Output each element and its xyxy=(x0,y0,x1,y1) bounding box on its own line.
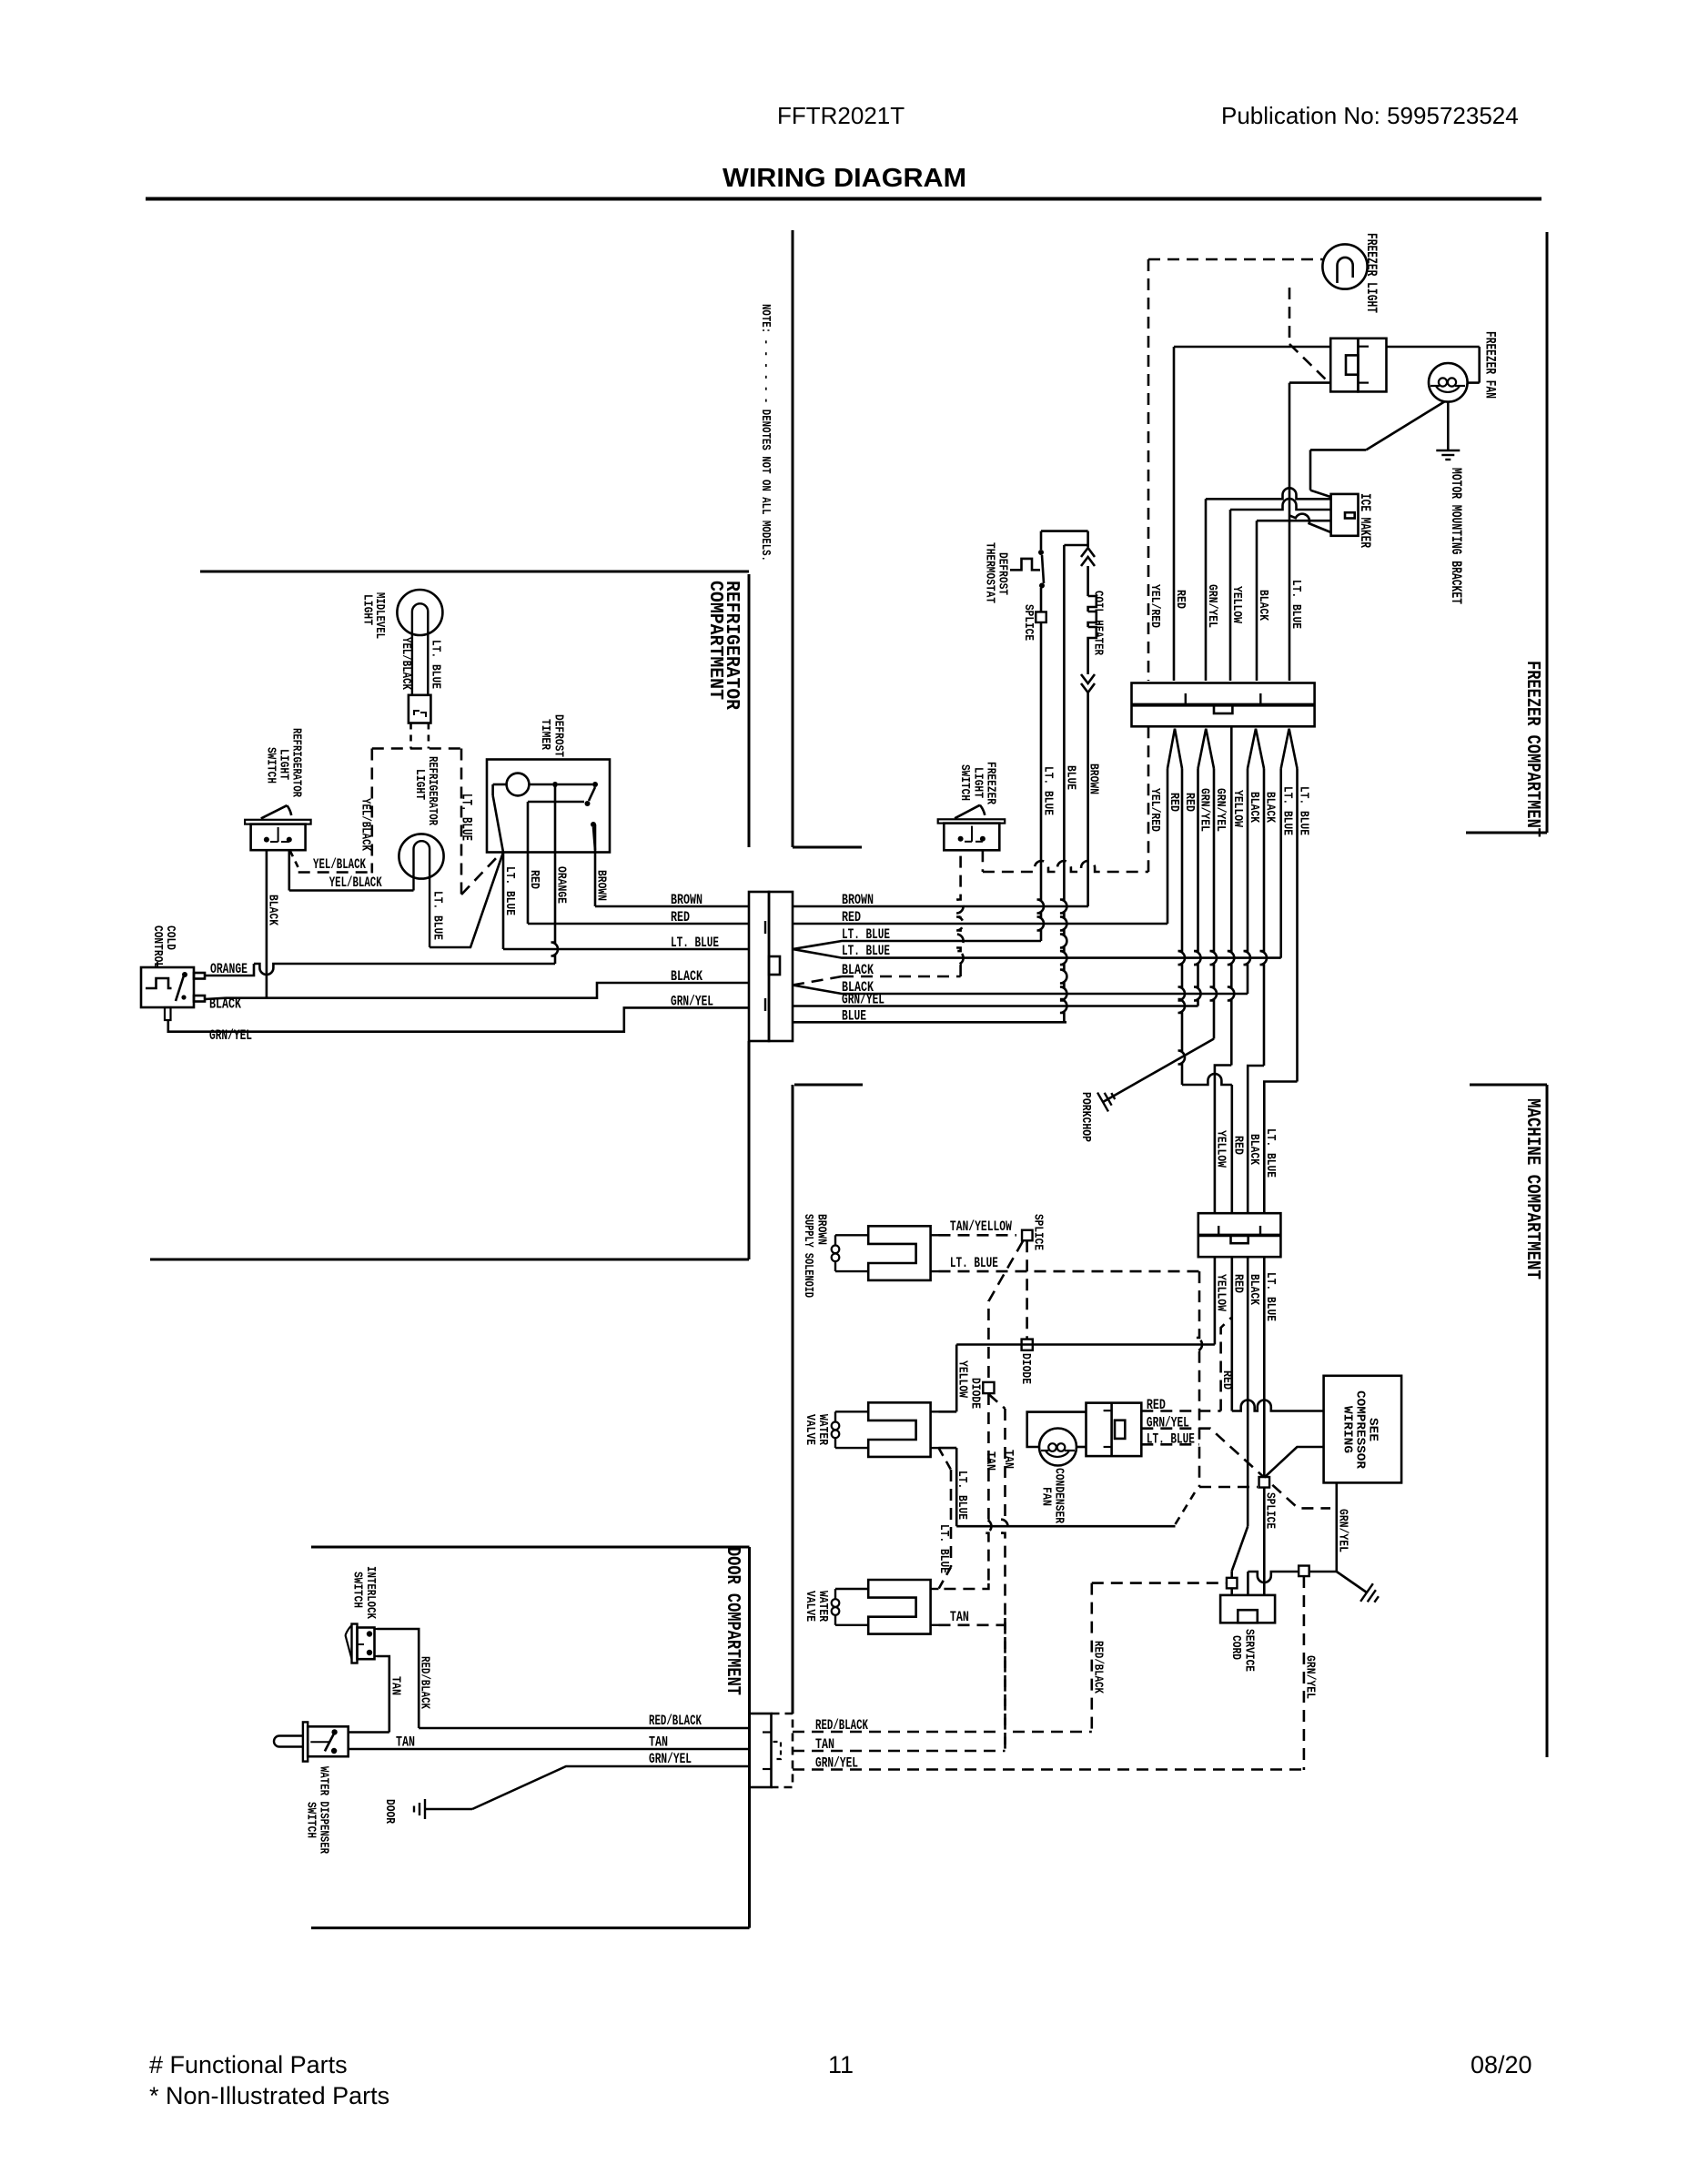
svg-text:BLUE: BLUE xyxy=(1064,765,1078,790)
svg-text:RED/BLACK: RED/BLACK xyxy=(649,1713,702,1729)
svg-text:TAN: TAN xyxy=(1001,1450,1016,1469)
svg-text:GRN/YEL: GRN/YEL xyxy=(209,1027,252,1044)
svg-text:TAN: TAN xyxy=(983,1451,997,1471)
svg-text:RED: RED xyxy=(1167,793,1181,812)
svg-text:GRN/YEL: GRN/YEL xyxy=(1205,584,1219,628)
svg-text:GRN/YEL: GRN/YEL xyxy=(1213,788,1228,832)
svg-text:COIL HEATER: COIL HEATER xyxy=(1091,591,1106,655)
svg-text:LIGHT: LIGHT xyxy=(360,594,375,625)
svg-text:BLACK: BLACK xyxy=(842,962,874,978)
svg-text:WIRING DIAGRAM: WIRING DIAGRAM xyxy=(723,164,966,193)
svg-text:FREEZER COMPARTMENT: FREEZER COMPARTMENT xyxy=(1521,661,1542,837)
svg-text:TAN: TAN xyxy=(950,1609,969,1625)
svg-text:LT. BLUE: LT. BLUE xyxy=(936,1524,951,1573)
svg-text:MACHINE COMPARTMENT: MACHINE COMPARTMENT xyxy=(1521,1098,1542,1279)
svg-text:YEL/RED: YEL/RED xyxy=(1147,584,1162,628)
svg-text:LT. BLUE: LT. BLUE xyxy=(429,640,443,689)
svg-text:YEL/BLACK: YEL/BLACK xyxy=(359,798,373,851)
svg-text:TAN/YELLOW: TAN/YELLOW xyxy=(950,1218,1013,1235)
svg-text:LT. BLUE: LT. BLUE xyxy=(1263,1272,1278,1321)
svg-text:WIRING: WIRING xyxy=(1340,1406,1354,1453)
svg-text:RED: RED xyxy=(1231,1274,1246,1293)
svg-text:# Functional Parts: # Functional Parts xyxy=(149,2051,348,2078)
svg-text:BLACK: BLACK xyxy=(1247,1274,1261,1305)
svg-text:YEL/BLACK: YEL/BLACK xyxy=(313,856,366,873)
svg-text:TIMER: TIMER xyxy=(538,719,552,750)
svg-text:TAN: TAN xyxy=(389,1676,403,1695)
svg-text:BLACK: BLACK xyxy=(266,895,280,925)
svg-text:BLACK: BLACK xyxy=(1247,1134,1261,1165)
svg-text:SPLICE: SPLICE xyxy=(1263,1492,1278,1529)
svg-text:GRN/YEL: GRN/YEL xyxy=(1198,788,1212,832)
svg-text:LT. BLUE: LT. BLUE xyxy=(459,794,475,841)
svg-text:LT. BLUE: LT. BLUE xyxy=(430,891,445,940)
svg-text:YELLOW: YELLOW xyxy=(1214,1130,1228,1168)
svg-text:YELLOW: YELLOW xyxy=(1214,1274,1228,1311)
svg-text:SPLICE: SPLICE xyxy=(1031,1214,1046,1250)
svg-text:YELLOW: YELLOW xyxy=(955,1360,970,1398)
svg-text:SPLICE: SPLICE xyxy=(1021,604,1036,641)
svg-text:PORKCHOP: PORKCHOP xyxy=(1078,1092,1093,1142)
svg-text:GRN/YEL: GRN/YEL xyxy=(1336,1509,1350,1552)
svg-text:BROWN: BROWN xyxy=(594,870,609,901)
svg-text:FFTR2021T: FFTR2021T xyxy=(777,102,905,129)
svg-text:CONTROL: CONTROL xyxy=(150,925,165,968)
svg-text:FREEZER FAN: FREEZER FAN xyxy=(1482,331,1499,399)
svg-text:LT. BLUE: LT. BLUE xyxy=(955,1471,969,1520)
svg-text:DOOR COMPARTMENT: DOOR COMPARTMENT xyxy=(722,1547,743,1695)
svg-text:RED: RED xyxy=(1173,590,1188,609)
svg-text:* Non-Illustrated Parts: * Non-Illustrated Parts xyxy=(149,2082,389,2109)
svg-text:CORD: CORD xyxy=(1228,1635,1243,1660)
svg-text:FAN: FAN xyxy=(1039,1487,1054,1506)
svg-text:GRN/YEL: GRN/YEL xyxy=(649,1751,692,1767)
svg-text:GRN/YEL: GRN/YEL xyxy=(842,992,884,1008)
svg-text:TAN: TAN xyxy=(649,1734,668,1751)
svg-text:RED: RED xyxy=(671,909,690,925)
svg-text:THERMOSTAT: THERMOSTAT xyxy=(983,542,997,603)
svg-text:YELLOW: YELLOW xyxy=(1229,586,1244,623)
svg-text:RED/BLACK: RED/BLACK xyxy=(418,1656,432,1709)
svg-text:NOTE: - - - - - - DENOTES NOT: NOTE: - - - - - - DENOTES NOT ON ALL MOD… xyxy=(758,304,773,561)
svg-text:Publication No: 5995723524: Publication No: 5995723524 xyxy=(1221,102,1519,129)
svg-text:YEL/RED: YEL/RED xyxy=(1147,788,1162,832)
svg-text:GRN/YEL: GRN/YEL xyxy=(671,994,713,1010)
svg-text:DOOR: DOOR xyxy=(382,1799,397,1824)
svg-text:TAN: TAN xyxy=(396,1734,415,1751)
svg-text:LT. BLUE: LT. BLUE xyxy=(1263,1128,1278,1178)
svg-text:ORANGE: ORANGE xyxy=(210,961,248,977)
svg-text:LT. BLUE: LT. BLUE xyxy=(1147,1431,1195,1448)
svg-text:SWITCH: SWITCH xyxy=(304,1802,318,1838)
svg-text:BLACK: BLACK xyxy=(671,968,703,985)
svg-text:FREEZER LIGHT: FREEZER LIGHT xyxy=(1363,233,1380,313)
svg-text:BLACK: BLACK xyxy=(1247,792,1261,823)
svg-text:LT. BLUE: LT. BLUE xyxy=(502,866,517,915)
svg-text:LIGHT: LIGHT xyxy=(412,769,427,800)
svg-text:BROWN: BROWN xyxy=(671,892,702,908)
svg-text:VALVE: VALVE xyxy=(803,1591,817,1622)
svg-text:LT. BLUE: LT. BLUE xyxy=(1297,786,1311,835)
svg-text:GRN/YEL: GRN/YEL xyxy=(1147,1415,1189,1431)
svg-text:11: 11 xyxy=(828,2051,854,2078)
svg-text:LT. BLUE: LT. BLUE xyxy=(950,1255,998,1271)
svg-text:RED: RED xyxy=(1231,1136,1246,1155)
svg-text:BROWN: BROWN xyxy=(842,892,874,908)
svg-text:DIODE: DIODE xyxy=(1018,1353,1033,1384)
svg-text:LT. BLUE: LT. BLUE xyxy=(671,935,719,951)
svg-text:SWITCH: SWITCH xyxy=(957,764,972,801)
svg-text:BLACK: BLACK xyxy=(1256,590,1270,621)
svg-text:LT. BLUE: LT. BLUE xyxy=(1041,766,1056,815)
svg-text:GRN/YEL: GRN/YEL xyxy=(815,1755,858,1772)
svg-text:LT. BLUE: LT. BLUE xyxy=(1289,580,1303,629)
svg-text:RED/BLACK: RED/BLACK xyxy=(1091,1641,1106,1694)
svg-text:08/20: 08/20 xyxy=(1471,2051,1532,2078)
svg-text:ORANGE: ORANGE xyxy=(554,866,569,904)
svg-text:COMPRESSOR: COMPRESSOR xyxy=(1353,1390,1367,1470)
svg-text:VALVE: VALVE xyxy=(803,1414,817,1445)
svg-text:LT. BLUE: LT. BLUE xyxy=(842,926,890,943)
svg-text:BROWN: BROWN xyxy=(1087,763,1101,794)
svg-text:RED/BLACK: RED/BLACK xyxy=(815,1717,868,1734)
svg-text:YEL/BLACK: YEL/BLACK xyxy=(329,875,382,891)
svg-text:COMPARTMENT: COMPARTMENT xyxy=(704,581,725,700)
svg-text:RED: RED xyxy=(527,870,541,889)
svg-text:ICE MAKER: ICE MAKER xyxy=(1357,493,1373,548)
svg-text:GRN/YEL: GRN/YEL xyxy=(1303,1655,1318,1699)
svg-text:SEE: SEE xyxy=(1366,1418,1380,1441)
svg-text:BLUE: BLUE xyxy=(842,1008,866,1025)
svg-text:RED: RED xyxy=(842,909,861,925)
svg-text:TAN: TAN xyxy=(815,1736,834,1753)
svg-text:SWITCH: SWITCH xyxy=(350,1572,365,1608)
svg-text:YEL/BLACK: YEL/BLACK xyxy=(399,637,413,690)
svg-text:LT. BLUE: LT. BLUE xyxy=(842,943,890,959)
svg-text:RED: RED xyxy=(1147,1397,1166,1413)
svg-text:SWITCH: SWITCH xyxy=(264,747,278,784)
svg-text:MOTOR MOUNTING BRACKET: MOTOR MOUNTING BRACKET xyxy=(1448,468,1464,604)
svg-text:RED: RED xyxy=(1182,793,1197,812)
svg-text:SUPPLY SOLENOID: SUPPLY SOLENOID xyxy=(801,1214,815,1298)
